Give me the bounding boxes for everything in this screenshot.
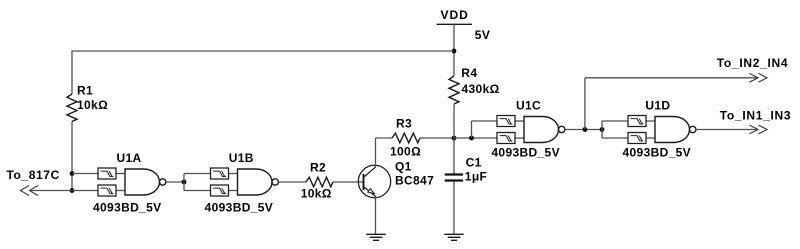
- svg-text:R4: R4: [461, 66, 477, 80]
- wire Q1 collector riser: [375, 138, 377, 167]
- svg-text:4093BD_5V: 4093BD_5V: [205, 200, 274, 214]
- transistor Q1 base bar: [363, 174, 365, 190]
- wire Q1 emitter drop: [375, 197, 377, 235]
- svg-text:Q1: Q1: [395, 160, 412, 174]
- nand gate U1A output inversion bubble: [160, 179, 166, 185]
- wire R4 bottom lead: [453, 104, 455, 138]
- nand gate U1A: input stub wires: [116, 173, 126, 175]
- U1B upper schmitt-trigger input symbol: [211, 168, 229, 179]
- transistor Q1 circle: [358, 165, 390, 197]
- svg-text:U1B: U1B: [229, 151, 254, 165]
- wire U1B input split vertical: [183, 174, 185, 191]
- power symbol VDD bar: [437, 23, 473, 25]
- output terminal arrow To_IN2_IN4: [750, 73, 768, 82]
- svg-text:430kΩ: 430kΩ: [462, 82, 500, 96]
- wire R1 top lead: [71, 51, 73, 94]
- node U1A input node lower: [70, 188, 75, 193]
- wire U1B input 2: [184, 190, 211, 192]
- nand gate U1C body: [524, 117, 559, 143]
- node U1A output node: [182, 180, 187, 185]
- node U1C input split node: [469, 136, 474, 141]
- wire To_IN2_IN4 lead: [585, 77, 758, 79]
- resistor R2 body: [306, 177, 333, 187]
- output terminal arrow To_IN1_IN3: [750, 125, 768, 134]
- wire U1D input 2: [602, 137, 628, 139]
- wire U1A input 2: [72, 190, 98, 192]
- U1A upper schmitt-trigger input symbol: [98, 168, 116, 179]
- svg-text:VDD: VDD: [441, 8, 469, 22]
- wire riser to To_IN2_IN4: [584, 78, 586, 130]
- svg-text:C1: C1: [466, 156, 482, 170]
- svg-text:100Ω: 100Ω: [390, 145, 421, 159]
- wire U1B input 1: [184, 173, 211, 175]
- wire C1 bottom lead: [453, 182, 455, 235]
- wire R1 bottom lead down to U1A inputs: [71, 122, 73, 191]
- nand gate U1A body: [125, 169, 160, 195]
- wire U1A input 1: [72, 173, 98, 175]
- wire U1D input split vertical: [601, 121, 603, 138]
- wire U1D output To_IN1_IN3 lead: [696, 129, 759, 131]
- transistor Q1 emitter arrowhead: [368, 189, 375, 194]
- node U1C output node A: [583, 127, 588, 132]
- ground GND at C1: [444, 234, 463, 240]
- wire R3 left lead: [376, 137, 393, 139]
- nand gate U1B output inversion bubble: [272, 179, 278, 185]
- wire U1C input 1: [472, 120, 498, 122]
- nand gate U1C output inversion bubble: [559, 126, 565, 132]
- wire U1A output: [166, 181, 184, 183]
- nand gate U1D: input stub wires: [646, 120, 656, 122]
- transistor Q1 collector stroke: [364, 167, 376, 177]
- wire node to U1C lower input: [454, 137, 497, 139]
- svg-text:4093BD_5V: 4093BD_5V: [623, 145, 692, 159]
- svg-text:10kΩ: 10kΩ: [77, 98, 108, 112]
- U1D upper schmitt-trigger input symbol: [628, 116, 646, 127]
- svg-text:R1: R1: [77, 84, 93, 98]
- svg-text:4093BD_5V: 4093BD_5V: [491, 145, 560, 159]
- node U1D input node: [600, 127, 605, 132]
- node U1A input node upper: [70, 171, 75, 176]
- nand gate U1D output inversion bubble: [690, 126, 696, 132]
- svg-text:To_817C: To_817C: [7, 168, 60, 182]
- wire C1 top lead: [453, 138, 455, 174]
- svg-text:10kΩ: 10kΩ: [301, 186, 332, 200]
- node R3/C1/R4 node: [452, 136, 457, 141]
- U1A lower schmitt-trigger input symbol: [98, 185, 116, 196]
- wire top rail VDD to R1: [71, 50, 454, 52]
- svg-text:To_IN2_IN4: To_IN2_IN4: [717, 56, 788, 70]
- nand gate U1B: input stub wires: [228, 173, 238, 175]
- wire R3 right lead: [420, 137, 454, 139]
- svg-text:1μF: 1μF: [465, 170, 487, 184]
- wire U1C input split vertical: [471, 121, 473, 138]
- wire To_817C lead: [30, 190, 73, 192]
- U1C upper schmitt-trigger input symbol: [497, 116, 515, 127]
- wire VDD stem: [453, 24, 455, 76]
- svg-text:R2: R2: [310, 161, 326, 175]
- resistor R4 body: [449, 76, 459, 104]
- svg-text:U1D: U1D: [645, 99, 670, 113]
- svg-text:4093BD_5V: 4093BD_5V: [93, 200, 162, 214]
- wire U1B output to R2: [279, 181, 307, 183]
- svg-text:U1A: U1A: [117, 151, 142, 165]
- capacitor C1 plates: [445, 175, 463, 181]
- svg-text:5V: 5V: [475, 28, 490, 42]
- svg-text:R3: R3: [396, 116, 412, 130]
- resistor R3 body: [392, 133, 420, 143]
- wire U1C output: [565, 129, 602, 131]
- wire R2 to Q1 base: [333, 181, 363, 183]
- resistor R1 body: [67, 94, 77, 122]
- nand gate U1B body: [238, 169, 273, 195]
- svg-text:To_IN1_IN3: To_IN1_IN3: [720, 108, 791, 122]
- nand gate U1D body: [655, 117, 690, 143]
- U1C lower schmitt-trigger input symbol: [497, 133, 515, 144]
- ground GND at Q1: [366, 234, 385, 240]
- transistor Q1 emitter stroke: [364, 187, 376, 197]
- U1B lower schmitt-trigger input symbol: [211, 185, 229, 196]
- wire U1D input 1: [602, 120, 628, 122]
- U1D lower schmitt-trigger input symbol: [628, 133, 646, 144]
- node VDD junction: [452, 49, 457, 54]
- nand gate U1C: input stub wires: [515, 120, 525, 122]
- svg-text:U1C: U1C: [516, 99, 541, 113]
- input terminal arrow To_817C: [21, 186, 39, 196]
- svg-text:BC847: BC847: [395, 174, 434, 188]
